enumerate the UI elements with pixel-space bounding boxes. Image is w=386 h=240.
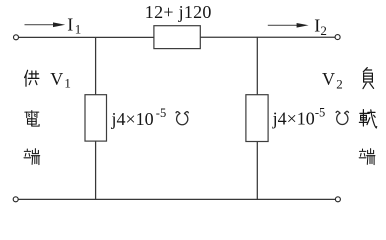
chinese char zai (carry) right column <box>359 110 376 128</box>
wire left shunt vertical upper <box>95 37 97 95</box>
label V1 <box>50 69 71 91</box>
wire right shunt vertical lower <box>256 141 258 200</box>
svg-text:2: 2 <box>320 23 327 38</box>
svg-text:-5: -5 <box>315 106 325 120</box>
svg-text:12+ j120: 12+ j120 <box>145 2 212 22</box>
terminal bottom-left <box>13 197 18 202</box>
svg-text:j4×10: j4×10 <box>111 109 154 129</box>
wire right shunt vertical upper <box>256 37 258 95</box>
wire bottom horizontal <box>18 198 335 200</box>
shunt admittance right value label j4x10^-5 <box>272 106 326 129</box>
wire top-right horizontal <box>200 36 335 38</box>
svg-text:V: V <box>322 69 335 89</box>
svg-text:I: I <box>314 15 320 35</box>
chinese char duan (end) left column <box>24 149 40 165</box>
wire top-left horizontal <box>19 36 154 38</box>
svg-text:V: V <box>50 69 63 89</box>
label V2 <box>322 69 343 92</box>
current arrow I2 <box>268 23 309 28</box>
svg-text:I: I <box>67 14 73 34</box>
shunt admittance box left <box>85 95 107 141</box>
chinese char gong (supply) left column <box>25 70 39 86</box>
mho symbol left <box>176 112 189 125</box>
svg-text:j4×10: j4×10 <box>272 109 315 129</box>
label I2 <box>314 15 327 38</box>
shunt admittance box right <box>246 95 268 142</box>
mho symbol right <box>336 111 349 124</box>
wire left shunt vertical lower <box>95 141 97 200</box>
chinese char fu (load) right column <box>363 68 374 89</box>
shunt admittance left value label j4x10^-5 <box>111 106 167 129</box>
svg-text:1: 1 <box>75 21 82 36</box>
terminal top-right <box>335 35 340 40</box>
terminal top-left <box>14 35 19 40</box>
svg-text:2: 2 <box>336 77 343 92</box>
chinese char dian (electric) left column <box>25 111 39 127</box>
terminal bottom-right <box>335 197 340 202</box>
chinese char duan (end) right column <box>359 149 375 165</box>
label I1 <box>67 14 81 36</box>
current arrow I1 <box>25 22 66 27</box>
svg-text:1: 1 <box>64 76 71 91</box>
series impedance box 12+j120 <box>154 26 200 49</box>
svg-text:-5: -5 <box>156 106 166 120</box>
